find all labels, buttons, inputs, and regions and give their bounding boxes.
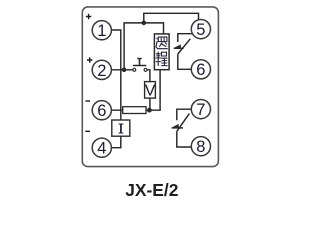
svg-text:8: 8 (196, 138, 205, 156)
svg-text:7: 7 (196, 101, 205, 119)
svg-text:6: 6 (97, 102, 106, 120)
svg-text:V: V (145, 82, 156, 99)
svg-text:5: 5 (196, 21, 205, 39)
svg-text:JX-E/2: JX-E/2 (125, 180, 178, 200)
svg-text:6: 6 (196, 61, 205, 79)
svg-text:2: 2 (97, 62, 106, 80)
svg-text:4: 4 (97, 140, 106, 158)
svg-text:1: 1 (97, 22, 106, 40)
